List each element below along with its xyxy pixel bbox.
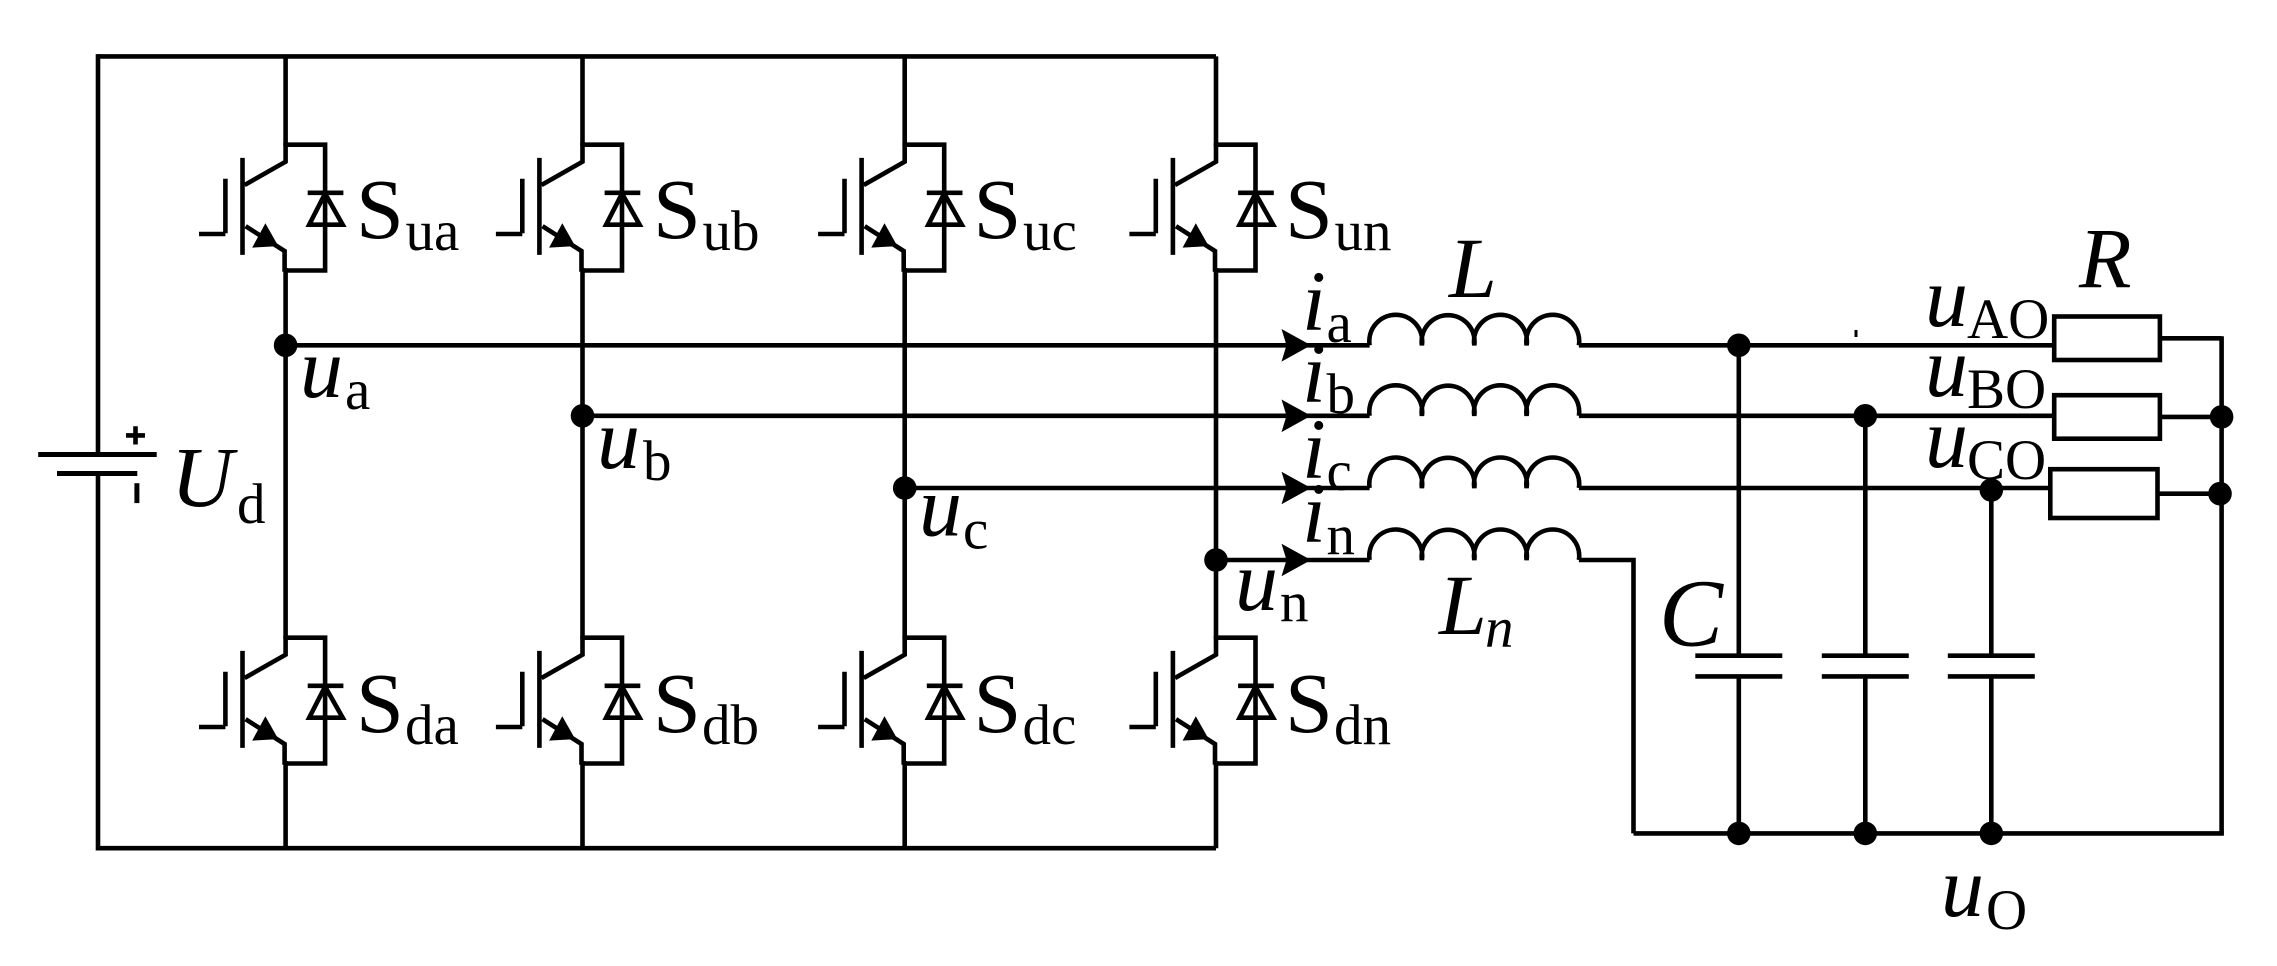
node uc junction dot [893,476,917,500]
svg-text:n: n [1327,504,1356,567]
transistor Sdb (IGBT with antiparallel diode) [496,636,640,765]
svg-text:b: b [643,430,672,493]
svg-text:n: n [1485,597,1514,660]
svg-text:da: da [405,694,459,757]
resistor R phase b [2054,395,2160,439]
wire: phase c output line [905,486,2051,491]
svg-text:C: C [1659,560,1724,667]
wire: phase n down to ground rail [1579,560,1634,833]
battery Ud negative plate [57,471,137,476]
wire: leg c collector from top bus [902,56,907,146]
svg-text:dn: dn [1334,694,1391,757]
wire: leg b emitter to bottom bus [580,761,585,848]
inductor L phase c [1369,458,1579,488]
svg-text:S: S [1285,161,1333,257]
wire: leg b collector from top bus [580,56,585,146]
svg-text:u: u [1941,839,1984,935]
resistor R phase a [2054,317,2160,361]
node un junction dot [1204,548,1228,572]
wire: ground rail [1634,831,2224,836]
arrow ia [1282,329,1312,362]
capacitor C phase c plates [1948,656,2035,677]
capacitor C phase b plates [1822,656,1909,677]
wire: leg n collector from top bus [1214,56,1219,146]
svg-text:S: S [653,161,701,257]
svg-text:un: un [1335,200,1392,263]
wire: leg a emitter to bottom bus [283,761,288,848]
svg-text:u: u [919,459,962,555]
svg-text:S: S [356,161,404,257]
wire: top DC bus [98,54,1216,59]
wire: phase b output line [583,413,2055,418]
node ground rail dot c [1980,822,2004,846]
wire: phase a output line [286,343,2055,348]
svg-text:L: L [1437,557,1487,653]
wire: left wire below battery [96,474,101,851]
svg-text:ua: ua [406,200,460,263]
node phase b / capacitor tap dot [1854,404,1878,428]
capacitor C phase a plates [1695,656,1782,677]
battery Ud positive plate [38,452,157,457]
svg-text:S: S [653,655,701,751]
capacitor C phase b: lower lead [1863,676,1868,833]
transistor Sun (IGBT with antiparallel diode) [1129,143,1273,272]
wire: right bus vertical [2219,336,2224,833]
capacitor C phase c: upper lead [1989,490,1994,656]
svg-text:R: R [2078,210,2132,306]
svg-text:c: c [963,499,988,562]
svg-text:BO: BO [1967,358,2046,421]
node ground rail dot b [1854,822,1878,846]
node right bus phase b dot [2210,405,2234,429]
wire: phase n output line [1216,558,1370,563]
svg-text:L: L [1447,220,1497,316]
capacitor C phase c: lower lead [1989,676,1994,833]
wire: leg a collector from top bus [283,56,288,146]
svg-text:u: u [300,320,343,416]
stray tick mark [1855,330,1858,337]
transistor Sdn (IGBT with antiparallel diode) [1129,636,1273,765]
arrow ib [1282,400,1312,433]
capacitor C phase a: upper lead [1737,345,1742,655]
node phase c / capacitor tap dot [1980,478,2004,502]
capacitor C phase b: upper lead [1863,416,1868,656]
wire: leg c emitter to bottom bus [902,761,907,848]
svg-text:a: a [345,359,370,422]
svg-text:i: i [1302,465,1326,561]
node ground rail dot a [1727,822,1751,846]
wire: leg c midpoint [902,268,907,639]
transistor Sub (IGBT with antiparallel diode) [496,143,640,272]
wire: left wire above battery [96,54,101,454]
node ub junction dot [571,404,595,428]
node phase a / capacitor tap dot [1727,334,1751,358]
svg-text:n: n [1280,571,1309,634]
inductor L phase b [1369,385,1579,415]
transistor Sua (IGBT with antiparallel diode) [199,143,343,272]
svg-text:dc: dc [1023,694,1077,757]
wire: resistor a to right bus [2160,336,2222,341]
wire: leg a midpoint [283,268,288,639]
svg-text:c: c [1327,440,1352,503]
node ua junction dot [274,334,298,358]
svg-text:u: u [1235,533,1278,629]
wire: bottom DC bus [98,846,1216,851]
wire: leg b midpoint [580,268,585,639]
arrow in [1282,544,1312,577]
inductor L phase a [1369,315,1579,345]
transistor Suc (IGBT with antiparallel diode) [818,143,962,272]
svg-text:a: a [1327,292,1352,355]
svg-text:S: S [974,161,1022,257]
arrow ic [1282,472,1312,505]
wire: resistor b to right bus [2160,415,2222,420]
inductor Ln phase n [1369,530,1579,560]
wire: leg n midpoint [1214,268,1219,639]
wire: leg n emitter to bottom bus [1214,761,1219,848]
resistor R phase c [2050,469,2157,518]
wire: resistor c to right bus [2158,491,2222,496]
capacitor C phase a: lower lead [1737,676,1742,833]
svg-text:u: u [597,391,640,487]
svg-text:AO: AO [1967,288,2049,351]
svg-text:CO: CO [1967,429,2046,492]
transistor Sda (IGBT with antiparallel diode) [199,636,343,765]
transistor Sdc (IGBT with antiparallel diode) [818,636,962,765]
svg-text:d: d [237,473,266,536]
svg-text:O: O [1986,879,2027,942]
svg-text:S: S [356,655,404,751]
svg-text:db: db [702,694,759,757]
svg-text:S: S [974,655,1022,751]
battery plus sign [126,426,145,444]
node right bus phase c dot [2208,482,2232,506]
svg-text:u: u [1925,390,1968,486]
svg-text:S: S [1285,655,1333,751]
svg-text:uc: uc [1023,200,1077,263]
svg-text:ub: ub [703,200,760,263]
svg-text:U: U [171,429,238,525]
battery minus sign [134,483,139,503]
svg-text:b: b [1327,363,1356,426]
